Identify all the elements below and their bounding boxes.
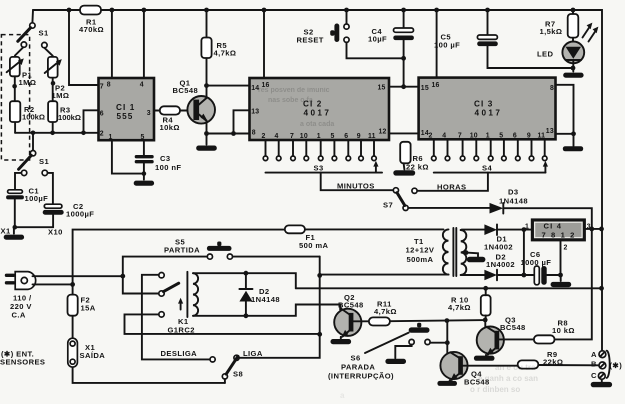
svg-text:1N4002: 1N4002 — [484, 243, 513, 252]
svg-text:7 8 1 2: 7 8 1 2 — [542, 231, 576, 240]
svg-text:15: 15 — [421, 85, 429, 92]
svg-text:S4: S4 — [482, 164, 492, 173]
svg-text:S8: S8 — [233, 370, 243, 379]
svg-text:13: 13 — [546, 128, 554, 135]
svg-text:1N4148: 1N4148 — [251, 295, 280, 304]
svg-text:CI 4: CI 4 — [544, 222, 563, 231]
svg-text:nas sobe o fa: nas sobe o fa — [268, 97, 313, 104]
svg-text:B: B — [591, 360, 597, 369]
svg-text:MINUTOS: MINUTOS — [337, 182, 375, 191]
svg-text:1N4002: 1N4002 — [486, 260, 515, 269]
svg-text:10: 10 — [300, 133, 308, 140]
svg-text:a: a — [340, 391, 345, 400]
svg-text:9: 9 — [527, 133, 531, 140]
svg-text:15A: 15A — [81, 304, 96, 313]
svg-text:BC548: BC548 — [173, 86, 199, 95]
svg-text:LIGA: LIGA — [243, 349, 263, 358]
svg-text:9: 9 — [357, 133, 361, 140]
svg-text:4,7kΩ: 4,7kΩ — [214, 49, 237, 58]
svg-text:4017: 4017 — [475, 109, 503, 118]
svg-text:C3: C3 — [160, 154, 171, 163]
svg-text:5: 5 — [331, 133, 335, 140]
svg-text:4: 4 — [275, 133, 279, 140]
svg-text:7: 7 — [458, 133, 462, 140]
svg-text:a ota cada: a ota cada — [300, 121, 334, 128]
svg-text:2: 2 — [262, 133, 266, 140]
svg-text:1: 1 — [525, 224, 529, 231]
svg-text:1,5kΩ: 1,5kΩ — [540, 27, 563, 36]
svg-text:SENSORES: SENSORES — [0, 358, 45, 367]
svg-text:1000 µF: 1000 µF — [521, 258, 552, 267]
svg-text:7: 7 — [290, 133, 294, 140]
svg-text:res posven de imunic: res posven de imunic — [258, 87, 330, 94]
svg-text:8: 8 — [550, 85, 554, 92]
svg-text:an e ou tra: an e ou tra — [495, 363, 536, 372]
svg-text:1: 1 — [486, 133, 490, 140]
svg-text:1000µF: 1000µF — [66, 210, 94, 219]
svg-text:e ganh a co san: e ganh a co san — [478, 374, 538, 383]
svg-text:2: 2 — [429, 133, 433, 140]
svg-text:(✱): (✱) — [610, 361, 623, 370]
svg-text:12+12V: 12+12V — [406, 246, 435, 255]
svg-text:4,7kΩ: 4,7kΩ — [374, 307, 397, 316]
svg-text:1N4148: 1N4148 — [499, 197, 528, 206]
svg-text:S1: S1 — [39, 29, 49, 38]
svg-text:10kΩ: 10kΩ — [160, 123, 180, 132]
svg-text:470kΩ: 470kΩ — [79, 25, 104, 34]
svg-text:RESET: RESET — [297, 36, 324, 45]
svg-text:C: C — [591, 371, 597, 380]
svg-text:100kΩ: 100kΩ — [58, 113, 81, 122]
svg-text:500 mA: 500 mA — [299, 241, 329, 250]
svg-text:1MΩ: 1MΩ — [19, 78, 37, 87]
svg-text:5: 5 — [499, 133, 503, 140]
svg-text:2: 2 — [100, 131, 104, 138]
svg-text:6: 6 — [513, 133, 517, 140]
svg-text:15: 15 — [378, 85, 386, 92]
svg-text:BC548: BC548 — [500, 323, 526, 332]
svg-text:10µF: 10µF — [368, 35, 387, 44]
svg-text:6: 6 — [344, 133, 348, 140]
svg-text:PARADA: PARADA — [341, 363, 375, 372]
svg-text:BC548: BC548 — [338, 301, 364, 310]
svg-text:12: 12 — [379, 129, 387, 136]
svg-text:1: 1 — [317, 133, 321, 140]
svg-text:22kΩ: 22kΩ — [543, 358, 563, 367]
svg-text:100kΩ: 100kΩ — [22, 113, 45, 122]
svg-text:8: 8 — [107, 82, 111, 89]
svg-text:o r dinben so: o r dinben so — [470, 385, 520, 394]
svg-text:8: 8 — [252, 129, 256, 136]
svg-text:6: 6 — [100, 111, 104, 118]
svg-text:11: 11 — [368, 133, 376, 140]
svg-text:SAÍDA: SAÍDA — [80, 351, 106, 360]
svg-text:2: 2 — [564, 245, 568, 252]
svg-text:X10: X10 — [48, 228, 63, 237]
svg-text:10 kΩ: 10 kΩ — [552, 326, 575, 335]
svg-text:G1RC2: G1RC2 — [168, 326, 195, 335]
svg-text:555: 555 — [117, 112, 134, 121]
svg-text:A: A — [591, 350, 597, 359]
svg-text:DESLIGA: DESLIGA — [161, 349, 198, 358]
svg-text:1MΩ: 1MΩ — [52, 91, 70, 100]
svg-text:S6: S6 — [351, 354, 361, 363]
svg-text:100 µF: 100 µF — [434, 41, 460, 50]
svg-text:S7: S7 — [383, 201, 393, 210]
svg-text:4: 4 — [140, 82, 144, 89]
svg-text:4: 4 — [442, 133, 446, 140]
svg-text:C.A: C.A — [12, 311, 26, 320]
svg-text:3: 3 — [147, 110, 151, 117]
svg-text:100µF: 100µF — [25, 194, 49, 203]
svg-text:22 kΩ: 22 kΩ — [406, 163, 429, 172]
svg-text:X1: X1 — [1, 227, 11, 236]
svg-text:100 nF: 100 nF — [155, 163, 181, 172]
svg-text:(INTERRUPÇÃO): (INTERRUPÇÃO) — [328, 372, 394, 381]
svg-text:CI 3: CI 3 — [474, 100, 493, 109]
svg-text:HORAS: HORAS — [437, 183, 466, 192]
svg-text:500mA: 500mA — [407, 255, 434, 264]
svg-text:S3: S3 — [314, 164, 324, 173]
svg-text:4017: 4017 — [304, 109, 332, 118]
svg-text:S1: S1 — [39, 157, 49, 166]
svg-text:7: 7 — [100, 84, 104, 91]
svg-text:PARTIDA: PARTIDA — [164, 246, 200, 255]
svg-text:13: 13 — [251, 109, 259, 116]
svg-text:LED: LED — [537, 50, 554, 59]
svg-text:16: 16 — [432, 82, 440, 89]
svg-text:D3: D3 — [508, 188, 519, 197]
svg-text:4,7kΩ: 4,7kΩ — [448, 303, 471, 312]
svg-text:CI 1: CI 1 — [116, 103, 135, 112]
